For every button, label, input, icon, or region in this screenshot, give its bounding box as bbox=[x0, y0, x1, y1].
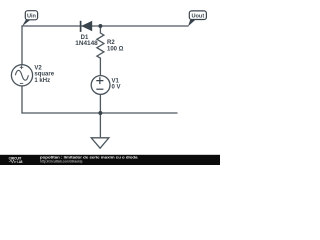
svg-text:popotitan : limitador de serie: popotitan : limitador de serie maxim cu … bbox=[40, 155, 138, 159]
svg-text:1 kHz: 1 kHz bbox=[34, 78, 50, 84]
svg-text:Uout: Uout bbox=[191, 13, 204, 19]
svg-text:0 V: 0 V bbox=[112, 85, 121, 91]
svg-text:square: square bbox=[34, 72, 54, 78]
svg-text:100 Ω: 100 Ω bbox=[107, 46, 124, 52]
svg-text:V2: V2 bbox=[34, 66, 42, 72]
svg-text:R2: R2 bbox=[107, 40, 115, 46]
svg-text:Uin: Uin bbox=[27, 13, 37, 19]
svg-text:LAB: LAB bbox=[17, 160, 22, 164]
svg-text:http://circuitlab.com/c8kaekip: http://circuitlab.com/c8kaekip bbox=[40, 160, 83, 164]
svg-text:V1: V1 bbox=[112, 79, 120, 85]
svg-text:1N4148: 1N4148 bbox=[75, 41, 98, 47]
